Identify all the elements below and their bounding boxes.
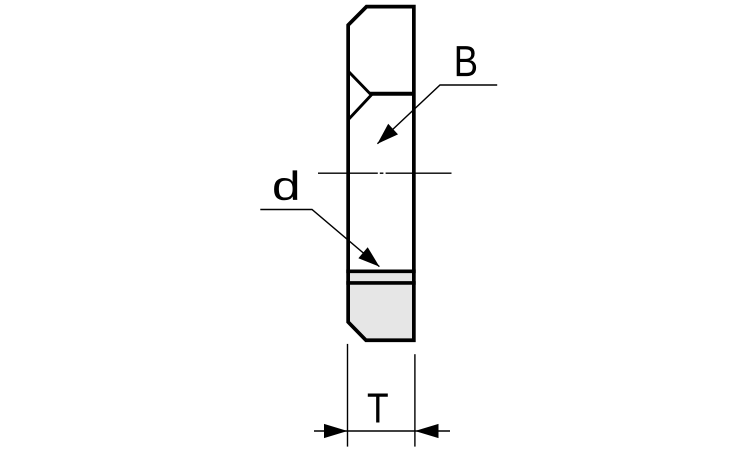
leader line d: [260, 210, 379, 267]
label d: [274, 170, 297, 200]
chamfer triangle: [348, 71, 371, 119]
leader line B: [377, 85, 497, 144]
label B: [457, 46, 476, 76]
extension line left: [347, 344, 349, 447]
washer strip gray fill: [346, 271, 415, 283]
bottom section gray fill: [348, 283, 414, 340]
dimension arrow right: [415, 424, 439, 438]
label T: [368, 393, 388, 422]
washer band line 2: [346, 281, 415, 285]
dimension line T: [314, 430, 450, 432]
extension line right: [414, 354, 416, 446]
centerline: [318, 172, 452, 174]
washer band line 1: [346, 269, 415, 273]
nut outline: [348, 7, 414, 341]
arrowhead d: [358, 247, 379, 266]
hex face line: [370, 92, 414, 96]
arrowhead B: [377, 124, 398, 144]
dimension arrow left: [324, 424, 348, 438]
